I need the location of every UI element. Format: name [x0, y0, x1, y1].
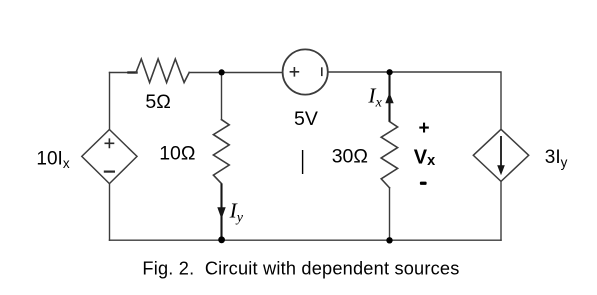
svg-text:Iy: Iy [229, 199, 244, 226]
svg-text:+: + [419, 118, 430, 139]
svg-text:Ix: Ix [367, 83, 382, 110]
svg-text:5Ω: 5Ω [145, 91, 170, 113]
svg-text:30Ω: 30Ω [332, 146, 368, 168]
svg-text:10Ix: 10Ix [36, 149, 69, 171]
svg-text:3Iy: 3Iy [545, 147, 568, 170]
svg-text:Fig. 2. Circuit with dependen: Fig. 2. Circuit with dependent sources [142, 258, 459, 278]
svg-text:Vx: Vx [414, 147, 435, 170]
svg-text:10Ω: 10Ω [159, 143, 195, 165]
svg-text:5V: 5V [294, 108, 318, 130]
